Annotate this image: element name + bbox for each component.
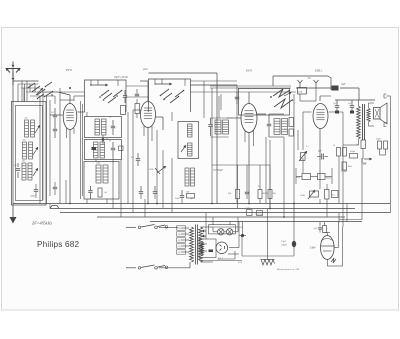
wire HT bottom	[242, 236, 294, 257]
label 6V lamps	[240, 226, 243, 229]
wire V1 anode right	[78, 111, 86, 113]
label 1M osc	[186, 192, 189, 194]
potentiometer 250	[300, 190, 319, 199]
pickup terminal 1	[298, 80, 303, 88]
capacitor B1	[111, 120, 115, 135]
svg-text:220: 220	[178, 228, 181, 230]
capacitor C4 in B3	[88, 186, 92, 199]
coil L1b	[31, 120, 35, 137]
transformer T1 core	[196, 225, 198, 265]
label 202 c2	[23, 140, 26, 142]
box rectifier net	[199, 239, 216, 258]
capacitor C237	[235, 92, 239, 104]
capacitor C5	[123, 90, 127, 103]
svg-text:EF9: EF9	[65, 68, 72, 72]
capacitor C1	[16, 163, 20, 178]
capacitor Ca	[335, 100, 339, 114]
coil B4b	[188, 143, 193, 156]
resistor R5	[135, 99, 140, 118]
bus wire 4	[97, 216, 345, 218]
svg-text:50pF: 50pF	[376, 139, 381, 141]
wire net drops right	[294, 94, 339, 204]
lamp La2	[226, 229, 232, 235]
tube V6 EM4	[321, 236, 335, 260]
resistor R6	[187, 194, 195, 199]
wire bus x237	[236, 85, 238, 204]
coil B4a	[188, 124, 193, 137]
wire power risers	[206, 213, 230, 240]
potentiometer P2	[299, 151, 307, 161]
antenna	[6, 62, 21, 86]
capacitor C2b	[53, 182, 57, 195]
wire det drop x284	[283, 137, 285, 217]
wire gang line d	[49, 100, 51, 196]
svg-text:240pF: 240pF	[30, 195, 36, 198]
resistor R17	[318, 174, 332, 180]
svg-text:EF9: EF9	[245, 69, 252, 73]
switch mains top	[138, 225, 168, 229]
IF box B1	[85, 117, 122, 138]
svg-text:(16μF): (16μF)	[281, 244, 287, 247]
svg-text:0.1: 0.1	[258, 186, 261, 188]
wire B-col left	[81, 101, 88, 199]
svg-text:202: 202	[25, 118, 28, 120]
label 202 c3	[22, 161, 25, 163]
wire ground drop	[267, 209, 269, 260]
label 1uF Cb	[348, 103, 352, 105]
wire drop x133	[132, 110, 134, 213]
svg-text:50: 50	[109, 141, 111, 143]
wire V2 bottom	[144, 126, 152, 204]
label 1uF b3	[104, 192, 108, 194]
capacitor bank 1uF	[246, 208, 252, 216]
svg-text:50k: 50k	[273, 193, 276, 195]
label 6p3V	[238, 262, 243, 264]
resistor R7	[289, 118, 294, 127]
junction az	[239, 234, 246, 237]
wire anode top	[335, 99, 375, 101]
label Klemmenwerte	[276, 268, 300, 271]
wire drop x113	[112, 157, 114, 209]
wire row drops	[212, 165, 270, 209]
capacitor 2uF EM	[314, 227, 322, 230]
label 84uF	[362, 162, 367, 165]
switch S1 wiper arrow	[90, 84, 108, 87]
wire drop x128	[127, 112, 129, 204]
wire S2 out right	[191, 81, 297, 92]
wire EM4 right	[334, 222, 338, 248]
bus wire 3	[60, 212, 391, 214]
capacitor Cr	[209, 250, 214, 253]
resistor mains zig	[201, 242, 204, 255]
svg-text:4kΩ: 4kΩ	[348, 165, 352, 168]
speaker terminal top	[384, 94, 387, 98]
capacitor 240pF	[30, 184, 38, 198]
resistor R4	[121, 106, 126, 115]
wire grid frame	[273, 76, 331, 90]
wire right loop	[339, 158, 362, 220]
svg-text:1k: 1k	[333, 145, 335, 147]
transformer T2 primary	[357, 106, 361, 139]
wire V3 top	[248, 92, 250, 104]
bus wire 5	[150, 221, 362, 223]
ground chassis	[261, 260, 275, 266]
label 0.5M right	[341, 171, 348, 173]
switch S2 contact 1	[160, 89, 172, 100]
signature mark	[331, 258, 336, 263]
label 202 c1	[25, 118, 28, 120]
wire lamp link	[213, 227, 238, 232]
label 0.1uF det	[258, 186, 261, 188]
wire V1 cathode	[67, 128, 75, 204]
label EF9 V1	[65, 68, 72, 72]
wire det drop x270	[269, 140, 271, 209]
switch box S1	[85, 80, 127, 112]
capacitor C7	[131, 153, 140, 166]
wire drop x107	[106, 199, 108, 204]
switch box S3	[239, 89, 290, 116]
lamp La1	[218, 229, 224, 235]
wire mains top	[126, 226, 178, 228]
label 4V	[203, 236, 206, 239]
svg-text:EM4: EM4	[309, 247, 316, 250]
capacitor C10	[180, 190, 184, 203]
label ZF 485	[32, 221, 52, 226]
wire T1 sec bottom	[201, 261, 214, 263]
frame top line	[149, 73, 218, 204]
capacitor 8uF k	[317, 150, 328, 160]
wire osc drop3	[171, 112, 173, 213]
svg-text:84μF: 84μF	[362, 162, 367, 165]
label EF9 V3	[245, 69, 252, 73]
wire V1 grid top	[44, 92, 70, 104]
svg-text:450Ω: 450Ω	[263, 192, 268, 195]
svg-text:202: 202	[23, 140, 26, 142]
junction dots bus	[69, 203, 295, 218]
wire drop x294b	[293, 204, 295, 223]
label 50+50uF	[213, 169, 223, 172]
capacitor C8	[139, 186, 143, 199]
coil IFT2a	[274, 119, 280, 135]
wire mid link	[59, 88, 61, 204]
wire interbox a	[126, 85, 149, 87]
coil B2b	[100, 142, 105, 158]
wire IFT1 link	[211, 96, 229, 137]
coil IFT1	[215, 120, 229, 134]
svg-text:3500: 3500	[96, 163, 100, 165]
wire HT drop x294	[293, 222, 295, 256]
wire V3 left	[227, 117, 241, 119]
wire V4 bottom	[319, 129, 321, 160]
wire mains bottom	[126, 262, 190, 268]
wire x343 mid	[361, 159, 363, 162]
label 50k det	[284, 129, 287, 131]
tube V3 EF9	[241, 104, 257, 133]
label AZ1	[217, 258, 224, 261]
coil box B3	[84, 162, 119, 200]
label EM4	[309, 247, 316, 250]
tube V4 EBL1	[313, 104, 328, 129]
label 30pF bus	[175, 198, 194, 200]
wire IFT2 link	[269, 114, 284, 137]
trimmer arrow L1	[35, 125, 40, 133]
svg-text:EBL1: EBL1	[314, 69, 323, 73]
switch box S2	[149, 79, 191, 112]
svg-text:8μF: 8μF	[342, 83, 347, 86]
resistor R12	[384, 141, 388, 149]
tube V2 mixer	[141, 102, 156, 128]
bus wire 1	[13, 203, 390, 205]
wire B-col drop	[96, 138, 107, 162]
diode arrow D1	[364, 158, 372, 161]
svg-text:0.1: 0.1	[306, 146, 309, 148]
wire gang line c	[46, 96, 48, 204]
resistor R16	[350, 151, 358, 158]
svg-text:2u2: 2u2	[143, 67, 148, 71]
svg-text:ZF=485kHz: ZF=485kHz	[32, 221, 52, 226]
capacitor 8uF HT	[332, 83, 347, 91]
svg-text:110: 110	[178, 252, 181, 254]
svg-text:1M: 1M	[186, 192, 189, 194]
coil B3b	[103, 165, 108, 183]
label 3500 b3	[96, 163, 100, 165]
wire S1 feed	[74, 96, 85, 101]
label 50pF R11	[376, 139, 381, 141]
wire drop x121	[120, 160, 122, 217]
resistor Rrow3	[268, 190, 276, 199]
resistor R8	[289, 129, 294, 136]
svg-text:0.3: 0.3	[284, 129, 287, 131]
trimmer arrow L2	[33, 147, 38, 155]
wire V3 bottom	[245, 130, 254, 204]
wire box stub 1	[91, 80, 118, 86]
svg-text:30pF: 30pF	[175, 198, 180, 200]
wire drop x66	[65, 180, 67, 204]
wire vvr link	[296, 168, 332, 184]
label Ta	[308, 77, 311, 80]
coil B1b	[102, 119, 107, 135]
speaker	[374, 103, 388, 124]
transformer T1 secondary	[199, 227, 203, 262]
wire bus x217b	[220, 94, 222, 110]
transformer T1 taps	[177, 226, 190, 254]
svg-text:0.5MΩ: 0.5MΩ	[341, 171, 348, 173]
switch cluster marks	[28, 82, 53, 99]
wire band-select top-left	[18, 84, 40, 102]
capacitor B2 left	[92, 147, 97, 150]
svg-text:50μΩ: 50μΩ	[350, 151, 355, 153]
resistor R19	[332, 191, 339, 198]
tube V1 EF9	[63, 104, 77, 130]
wire az bottom	[199, 260, 242, 262]
wire top-left links	[26, 84, 55, 104]
tuned-circuit box L1 inner	[16, 106, 43, 201]
coil L3b	[28, 163, 32, 180]
resistor B2 right	[119, 146, 124, 151]
wire V2 top	[140, 81, 148, 102]
switch S2 contact 2	[170, 90, 184, 103]
svg-text:7×0.1μF: 7×0.1μF	[255, 213, 263, 216]
switch mains bottom	[138, 265, 168, 269]
svg-text:250Ω: 250Ω	[300, 195, 305, 197]
padding coil B5	[185, 168, 195, 186]
svg-text:44kΩ: 44kΩ	[326, 177, 331, 180]
resistor VVR	[296, 174, 311, 180]
switch S3 blade 1	[273, 89, 290, 97]
wire gang line a	[39, 96, 41, 204]
switch S0 contact a	[32, 86, 46, 95]
coil L2a	[23, 142, 27, 159]
capacitor C9	[153, 186, 157, 199]
switch S1 contact 2	[108, 90, 122, 103]
tuned-circuit box L1 outer	[12, 102, 47, 206]
wire EM4 bottom	[327, 227, 342, 266]
svg-text:50k: 50k	[228, 193, 231, 195]
resistor R18	[325, 190, 330, 200]
svg-text:150: 150	[178, 240, 181, 242]
wire hop	[50, 204, 59, 209]
wire kath drop	[320, 160, 327, 217]
svg-text:202: 202	[22, 161, 25, 163]
label 8uF right	[363, 163, 367, 166]
wire T2 bottom lead	[343, 122, 374, 145]
switch S3 dot	[270, 96, 293, 101]
switch S2 wiper	[155, 83, 172, 86]
resistor R3 in B3	[98, 188, 102, 197]
trimmer arrow B5	[155, 166, 166, 174]
wire V3 right	[257, 113, 266, 115]
junction B1-B2	[102, 135, 105, 144]
wire T1 heater arrows	[202, 230, 207, 238]
svg-text:50+50μF: 50+50μF	[213, 169, 223, 172]
svg-text:125: 125	[178, 246, 181, 248]
wire speaker drop	[387, 96, 391, 213]
switch S3 blade 2	[274, 92, 292, 108]
wire det drop x266	[265, 137, 267, 204]
svg-text:Klemmenwerte ca. 180: Klemmenwerte ca. 180	[276, 268, 300, 271]
coil L1a	[25, 120, 29, 137]
wire HT rail x212	[204, 81, 212, 204]
label 30pF trim	[114, 76, 128, 79]
wire antenna down-lead	[13, 81, 39, 204]
wire HT top	[296, 88, 359, 100]
wire V4 left	[303, 112, 312, 150]
resistor R13	[342, 162, 352, 170]
wire EM4 top	[320, 222, 330, 236]
ground arrow left	[10, 204, 17, 224]
wire AVC line	[210, 86, 291, 88]
wire rect HT riser	[238, 217, 243, 248]
wire drop x145	[144, 199, 146, 217]
capacitor IFT1	[208, 118, 212, 136]
wire T2 top lead	[359, 100, 375, 108]
wire input bundle	[22, 81, 27, 102]
wire left top links	[60, 92, 85, 100]
coil B3a	[96, 165, 101, 183]
wire T1 sec mid	[201, 244, 208, 251]
resistor R10	[356, 140, 366, 149]
wire interbox b	[126, 96, 149, 98]
capacitor C6	[135, 89, 139, 96]
transformer T2 secondary	[367, 108, 370, 122]
title Philips 682	[37, 240, 79, 249]
box lamp assembly	[209, 225, 236, 234]
coil L3a	[22, 163, 26, 180]
wire V2 left dashes	[133, 109, 141, 111]
transformer T2 core	[363, 104, 365, 140]
trimmer arrow B4	[181, 145, 186, 152]
wire tone link	[363, 149, 386, 160]
resistor Rrow1	[228, 190, 240, 199]
tube V5 AZ1	[216, 242, 228, 254]
coil IFT2b	[282, 119, 288, 135]
potentiometer 500k	[298, 88, 307, 95]
resistor R15	[343, 148, 347, 157]
wire V1 left	[50, 114, 63, 116]
svg-text:6.3V: 6.3V	[238, 262, 243, 264]
wire V4 top	[320, 96, 331, 101]
coil B1a	[95, 119, 100, 135]
capacitor Cb	[350, 100, 354, 114]
capacitor 32uF	[281, 240, 296, 247]
label 50 b1	[109, 117, 111, 119]
trimmer arrow L3	[33, 168, 38, 176]
svg-text:2μF: 2μF	[314, 227, 318, 230]
capacitor Crow	[245, 186, 249, 199]
svg-text:32μF: 32μF	[281, 240, 287, 243]
wire box stub 2	[155, 79, 185, 86]
resistor Rrow2	[258, 190, 268, 199]
label 5000 osc	[149, 169, 154, 171]
svg-text:30pF≈/40-80: 30pF≈/40-80	[114, 76, 128, 79]
coil L2b	[29, 142, 33, 159]
wire EM4 col riser	[338, 213, 340, 223]
label EBL1	[314, 69, 323, 73]
label 1uF Ca	[333, 103, 337, 105]
resistor R14	[337, 148, 341, 157]
IF box B2	[85, 140, 122, 160]
switch S1 contact 1	[99, 90, 112, 101]
wire AZ1 out	[218, 248, 239, 259]
label 2u2	[143, 67, 148, 71]
switch S0 contact b	[44, 91, 53, 97]
wire V2 right	[156, 117, 164, 130]
label 50pF C1	[14, 164, 17, 167]
capacitor bank 7x01	[255, 211, 263, 217]
wire T1 sec top	[201, 226, 214, 228]
svg-text:50: 50	[109, 117, 111, 119]
capacitor B2	[111, 142, 115, 157]
wire V4 right	[329, 111, 344, 113]
svg-text:500k: 500k	[298, 92, 302, 94]
wire osc drop1	[156, 130, 158, 204]
transformer T1 primary	[190, 227, 194, 262]
svg-text:VVR: VVR	[296, 177, 301, 179]
junction V1	[69, 87, 71, 89]
label 1k a	[333, 145, 335, 147]
coil B2a	[94, 142, 99, 158]
wire pickup link	[300, 88, 316, 101]
trimmer arrow T1	[36, 88, 43, 95]
wire right col x347	[346, 204, 348, 223]
capacitor C3	[53, 124, 57, 138]
coil box B4	[178, 122, 199, 159]
wire drop x87	[86, 199, 88, 204]
svg-text:0.1: 0.1	[131, 156, 134, 159]
wire osc drop2	[162, 150, 164, 209]
wire mid right rail	[342, 112, 344, 227]
capacitor IFT2	[267, 114, 271, 137]
